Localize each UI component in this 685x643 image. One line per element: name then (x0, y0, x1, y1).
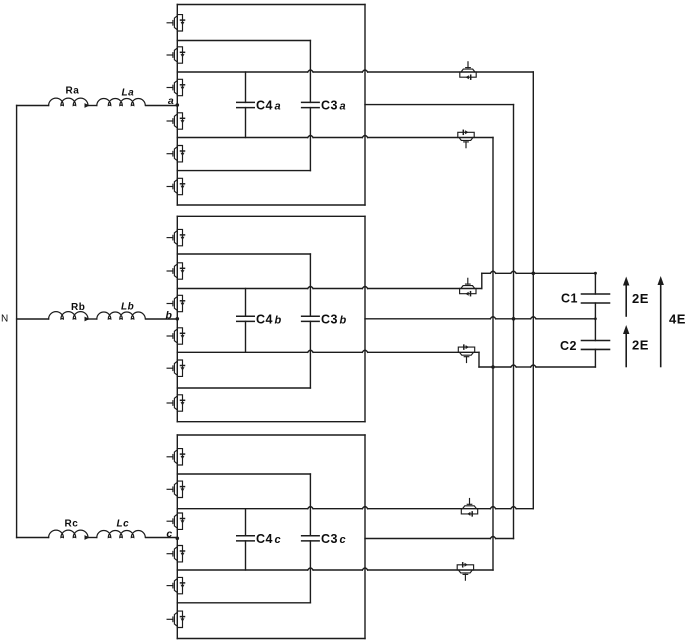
svg-text:b: b (166, 309, 173, 321)
svg-text:2E: 2E (632, 338, 649, 353)
svg-text:Lc: Lc (117, 519, 130, 530)
svg-text:a: a (168, 95, 174, 107)
svg-text:C3c: C3c (321, 532, 346, 546)
svg-text:2E: 2E (632, 291, 649, 306)
svg-text:C1: C1 (561, 292, 578, 306)
svg-text:C3b: C3b (321, 312, 347, 326)
svg-text:Rb: Rb (71, 302, 85, 313)
svg-text:N: N (1, 314, 9, 325)
svg-text:C2: C2 (560, 339, 577, 353)
svg-text:C4b: C4b (256, 312, 282, 326)
svg-text:La: La (122, 88, 135, 99)
svg-text:c: c (166, 528, 172, 540)
svg-text:C3a: C3a (321, 99, 346, 113)
svg-text:C4a: C4a (256, 99, 281, 113)
svg-text:4E: 4E (669, 312, 685, 327)
svg-text:C4c: C4c (256, 532, 281, 546)
svg-text:Lb: Lb (121, 302, 134, 313)
svg-text:Ra: Ra (66, 86, 80, 97)
svg-text:Rc: Rc (65, 519, 79, 530)
